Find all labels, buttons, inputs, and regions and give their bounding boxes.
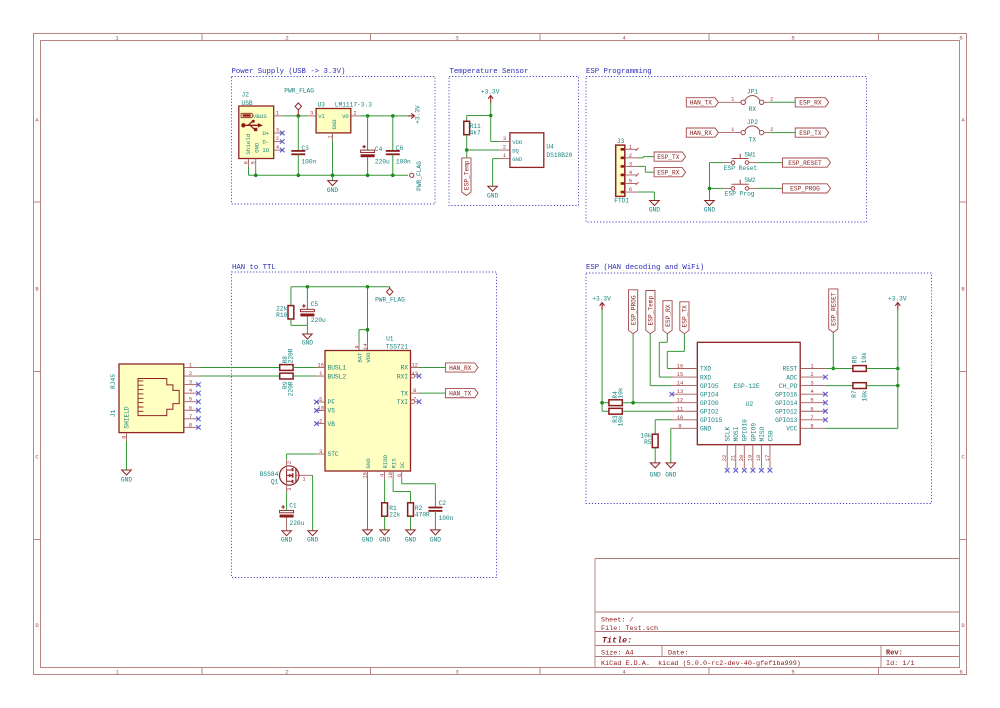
wire GPIO15 to R5 <box>655 420 672 434</box>
wire R6 to +3.3V rail <box>866 368 898 370</box>
U2 pin 13 GPIO4 <box>670 389 698 396</box>
svg-text:Temperature Sensor: Temperature Sensor <box>450 68 529 76</box>
section box HAN to TTL <box>232 264 497 578</box>
U3 pin 3 VI <box>308 110 317 116</box>
svg-text:SW1: SW1 <box>744 151 755 158</box>
svg-text:RX: RX <box>401 365 409 372</box>
svg-text:CH_PD: CH_PD <box>779 383 798 390</box>
svg-text:C: C <box>35 454 39 461</box>
J1 pin 5 <box>184 397 199 403</box>
junction SW2 ground branch <box>708 187 712 191</box>
svg-text:VO: VO <box>342 113 349 120</box>
U2 pin 22 SCLK <box>722 445 730 473</box>
svg-text:2: 2 <box>629 153 632 159</box>
svg-text:A: A <box>961 117 965 124</box>
U2 pin 11 GPIO2 <box>672 406 698 412</box>
J3 pin 5 <box>625 179 639 186</box>
U1 pin 8 TX <box>411 388 420 394</box>
svg-text:5: 5 <box>629 179 632 185</box>
frame column ticks top/bottom <box>202 34 879 675</box>
svg-text:4: 4 <box>380 474 386 477</box>
svg-text:6: 6 <box>810 406 813 412</box>
svg-text:HAN to TTL: HAN to TTL <box>232 264 276 272</box>
svg-text:4k7: 4k7 <box>470 130 481 137</box>
svg-text:J1: J1 <box>110 410 117 418</box>
svg-text:D+: D+ <box>262 130 269 137</box>
wire Q1 gate to ground <box>312 475 314 530</box>
svg-text:3: 3 <box>810 381 813 387</box>
svg-text:Sheet: /: Sheet: / <box>601 617 634 625</box>
no-connect J1 pin 4 <box>196 391 201 396</box>
transistor Q1 BSS84 <box>260 459 313 491</box>
wire ESP_TX to TXD <box>667 334 684 369</box>
U2 pin 10 GPIO15 <box>672 415 698 421</box>
svg-text:Title:: Title: <box>602 636 632 646</box>
wire ESP_RESET down to REST <box>832 332 834 368</box>
svg-text:6: 6 <box>959 668 962 675</box>
resistor R8 220R <box>280 348 295 370</box>
ground symbol (R2) <box>405 530 416 544</box>
J1 pin 2 <box>184 371 199 377</box>
svg-text:C1: C1 <box>289 502 297 509</box>
wire R10 bottom <box>291 319 308 325</box>
J1 pin 9 shield <box>121 433 127 441</box>
junction C4 top <box>366 114 370 118</box>
U1 pin 10 VS <box>314 405 325 412</box>
U1 pin 7 TXI <box>411 397 422 404</box>
junction R7/+3.3V <box>896 384 900 388</box>
frame row ticks left/right <box>34 202 967 540</box>
ground symbol (Q1 gate) <box>307 531 318 544</box>
global label ESP_TX (ftdi) <box>654 152 686 161</box>
J2 pin 1 VBUS <box>274 110 283 116</box>
svg-text:15: 15 <box>677 372 683 378</box>
wire +3.3V right rail to VCC <box>825 310 897 428</box>
svg-text:R6: R6 <box>852 356 859 364</box>
svg-text:ESP Reset: ESP Reset <box>724 165 758 172</box>
U1 pin 15 GND <box>363 471 369 480</box>
svg-text:ESP Prog: ESP Prog <box>725 191 755 198</box>
wire CH_PD to R7 <box>825 385 853 387</box>
svg-text:22k: 22k <box>389 511 400 518</box>
svg-text:A: A <box>35 117 39 124</box>
svg-text:Size: A4: Size: A4 <box>601 649 634 657</box>
wire U3 VO to +3.3V <box>359 115 408 117</box>
svg-text:MOSI: MOSI <box>733 426 740 441</box>
svg-text:18: 18 <box>756 455 762 461</box>
svg-text:RXI: RXI <box>397 373 408 380</box>
junction VBUS/C3/PWR_FLAG <box>297 114 301 118</box>
junction R11 top <box>489 114 493 118</box>
wire R9 to BUSL2 <box>293 375 316 377</box>
svg-text:PWR_FLAG: PWR_FLAG <box>416 161 423 191</box>
ground symbol (switches) <box>704 201 715 214</box>
junction ground rail J2 pin5 <box>254 174 258 178</box>
svg-text:DS18B20: DS18B20 <box>546 152 572 159</box>
svg-text:VBUS: VBUS <box>253 113 267 120</box>
svg-text:ESP Programming: ESP Programming <box>586 68 652 76</box>
section box ESP Programming <box>586 68 867 222</box>
top power rail (HAN) <box>291 286 390 288</box>
frame row labels A-D <box>35 117 965 630</box>
U1 pin 4 RIDD <box>380 471 386 480</box>
svg-text:1: 1 <box>302 476 305 482</box>
svg-text:ESP_TX: ESP_TX <box>682 305 689 328</box>
svg-text:GPIO10: GPIO10 <box>742 419 749 442</box>
U2 pin 18 MISO <box>756 445 764 473</box>
svg-text:ESP_RESET: ESP_RESET <box>788 160 822 167</box>
global label HAN_TX (prog) <box>686 98 718 107</box>
U2 pin 17 CS0 <box>765 445 773 473</box>
svg-text:VB: VB <box>328 421 336 428</box>
resistor R7 10k <box>851 383 869 402</box>
svg-text:4: 4 <box>629 170 632 176</box>
svg-text:TXD: TXD <box>700 366 711 373</box>
svg-text:VDD: VDD <box>365 352 372 363</box>
svg-text:TSS721: TSS721 <box>386 344 409 351</box>
U2 pin 20 GPIO10 <box>739 445 747 473</box>
svg-text:VS: VS <box>328 408 336 415</box>
svg-text:7: 7 <box>413 397 416 403</box>
svg-text:Id: 1/1: Id: 1/1 <box>886 660 915 668</box>
regulator U3 LM1117-3.3 <box>316 102 372 133</box>
svg-text:GND: GND <box>121 477 132 484</box>
capacitor C1 220u <box>280 502 305 530</box>
svg-text:220u: 220u <box>375 158 390 165</box>
ground symbol (R5) <box>650 463 661 479</box>
wire R4 to GPIO0 <box>622 402 672 404</box>
wire JP2 to ESP_TX <box>769 132 795 134</box>
svg-text:2: 2 <box>287 461 293 464</box>
svg-text:5: 5 <box>791 35 794 42</box>
svg-text:1: 1 <box>503 153 506 159</box>
wire rail to U1 BAT/VDD <box>359 287 368 343</box>
svg-text:R5: R5 <box>644 439 652 446</box>
wire R8 to BUSL1 <box>293 367 316 369</box>
svg-text:J2: J2 <box>242 91 250 98</box>
U2 pin 1 REST <box>800 364 825 370</box>
frame column labels 1-6 <box>115 35 962 676</box>
svg-text:16: 16 <box>677 364 683 370</box>
svg-text:ESP_Temp: ESP_Temp <box>648 295 655 325</box>
wire U1 GND to ground <box>367 480 369 530</box>
no-connect J1 pin 5 <box>196 399 201 404</box>
global label ESP_PROG (prog) <box>783 184 831 193</box>
svg-text:D: D <box>961 622 965 629</box>
svg-text:3: 3 <box>629 161 632 167</box>
svg-text:GPIO0: GPIO0 <box>700 400 719 407</box>
svg-text:PWR_FLAG: PWR_FLAG <box>284 87 314 94</box>
junction VDD rail <box>366 285 370 289</box>
svg-text:TX: TX <box>749 137 757 144</box>
global label ESP_RX (ftdi) <box>654 168 686 177</box>
svg-text:GND: GND <box>379 537 390 544</box>
svg-text:20: 20 <box>739 455 745 461</box>
resistor R9 220R <box>280 373 295 396</box>
svg-text:DQ: DQ <box>512 148 519 155</box>
power +3.3V (temp sensor) <box>481 89 500 104</box>
capacitor C2 100n <box>428 500 453 530</box>
U2 pin 14 GPIO5 <box>672 381 698 387</box>
global label ESP_RX (esp) <box>663 301 672 334</box>
svg-text:5: 5 <box>810 398 813 404</box>
U1 pin 1 BUSL2 <box>317 371 326 377</box>
title block size/date/rev <box>601 649 903 657</box>
wire R4 left <box>602 402 609 404</box>
global label HAN_TX <box>445 389 478 398</box>
svg-text:MISO: MISO <box>759 426 766 441</box>
svg-text:GPIO16: GPIO16 <box>775 391 798 398</box>
J3 pin 4 <box>625 170 639 177</box>
svg-text:3: 3 <box>455 668 458 675</box>
svg-text:GND: GND <box>365 458 372 469</box>
svg-text:GND: GND <box>307 537 318 544</box>
U2 pin 9 GND <box>672 423 698 429</box>
power +3.3V (ESP right) <box>888 296 907 311</box>
svg-text:GPIO13: GPIO13 <box>775 417 798 424</box>
svg-text:RJ45: RJ45 <box>110 374 117 389</box>
svg-text:4: 4 <box>810 389 813 395</box>
svg-text:3: 3 <box>319 449 322 455</box>
J2 pin 6 shield <box>243 159 249 168</box>
svg-text:ESP_Temp: ESP_Temp <box>464 160 471 190</box>
switch SW1 ESP Reset <box>723 151 757 172</box>
svg-text:U3: U3 <box>318 102 326 109</box>
svg-text:1: 1 <box>731 127 734 133</box>
svg-text:6: 6 <box>629 187 632 193</box>
svg-text:LM1117-3.3: LM1117-3.3 <box>335 102 372 109</box>
svg-text:RXD: RXD <box>700 374 711 381</box>
resistor R3 10k <box>609 408 625 426</box>
wire SW2 to ESP_PROG <box>757 187 782 189</box>
svg-text:14: 14 <box>363 344 369 350</box>
global label HAN_RX (prog) <box>686 128 718 137</box>
svg-text:3: 3 <box>310 110 313 116</box>
title block Title <box>602 636 632 646</box>
svg-text:B: B <box>35 286 39 293</box>
wire to R11 <box>467 116 491 122</box>
global label ESP_RESET (esp) <box>829 289 838 333</box>
svg-text:21: 21 <box>731 455 737 461</box>
wire RIS to R2 <box>393 480 410 503</box>
global label ESP_RX (prog) <box>795 98 829 107</box>
svg-text:10k: 10k <box>862 390 869 401</box>
svg-text:SHIELD: SHIELD <box>124 406 131 429</box>
jumper JP1 RX <box>731 89 773 114</box>
svg-text:22: 22 <box>722 455 728 461</box>
svg-text:GND: GND <box>487 193 498 200</box>
wire R11 to DQ <box>467 135 500 150</box>
wire TX to HAN_TX <box>419 392 445 394</box>
svg-text:4: 4 <box>276 145 279 151</box>
wire J2 VBUS to U3 VI <box>282 115 307 117</box>
U1 pin 14 VDD <box>363 343 369 350</box>
svg-text:GPIO9: GPIO9 <box>750 423 757 442</box>
J3 pin 1 <box>625 144 639 151</box>
resistor R11 4k7 <box>464 121 481 136</box>
svg-text:File: Test.sch: File: Test.sch <box>601 625 658 633</box>
svg-text:5: 5 <box>189 397 192 403</box>
wire R3 to GPIO2 <box>622 410 672 412</box>
svg-text:GND: GND <box>331 119 338 130</box>
junction ground rail C4 <box>366 174 370 178</box>
wire U3 GND down <box>332 141 334 176</box>
resistor R6 10k <box>852 352 869 372</box>
svg-text:USB: USB <box>242 100 253 107</box>
svg-text:B: B <box>961 286 965 293</box>
svg-text:J3: J3 <box>617 138 625 145</box>
wire ESP_PROG down <box>632 334 634 403</box>
title block sheet text <box>601 617 658 633</box>
U4 pin 1 GND <box>499 153 510 159</box>
svg-text:TX: TX <box>401 390 409 397</box>
svg-text:GND: GND <box>700 426 711 433</box>
U2 pin 8 VCC <box>800 423 825 429</box>
U1 pin 5 PF <box>314 397 325 404</box>
no-connect D- <box>280 139 285 144</box>
U4 pin 3 VDD <box>499 136 510 142</box>
svg-text:GPIO2: GPIO2 <box>700 408 719 415</box>
svg-text:1: 1 <box>629 144 632 150</box>
svg-text:1: 1 <box>327 135 333 138</box>
svg-text:C6: C6 <box>396 145 404 152</box>
junction ground rail C3 <box>297 174 301 178</box>
power flag PWR_FLAG (HAN rail) <box>375 287 405 304</box>
U2 pin 16 TXD <box>672 364 698 370</box>
svg-text:100n: 100n <box>396 158 411 165</box>
svg-text:3: 3 <box>503 136 506 142</box>
ground symbol (U1 GND) <box>362 530 373 544</box>
junction REST <box>832 367 836 371</box>
junction ground rail U3 <box>331 174 335 178</box>
svg-text:VI: VI <box>318 113 325 120</box>
resistor R5 10k <box>640 432 658 447</box>
svg-text:U4: U4 <box>546 144 554 151</box>
svg-text:HAN_TX: HAN_TX <box>449 390 472 397</box>
svg-text:6: 6 <box>959 35 962 42</box>
U2 pin 19 GPIO9 <box>748 445 756 473</box>
U1 pin 13 RXI <box>411 371 422 378</box>
no-connect J1 pin 8 <box>196 425 201 430</box>
U2 pin 12 GPIO0 <box>672 398 698 404</box>
svg-text:ESP_PROG: ESP_PROG <box>790 186 820 193</box>
U2 pin 7 GPIO13 <box>800 415 828 422</box>
svg-text:220u: 220u <box>290 520 305 527</box>
svg-text:13: 13 <box>677 389 683 395</box>
svg-text:GND: GND <box>327 187 338 194</box>
title block frame <box>595 559 960 668</box>
svg-text:C4: C4 <box>375 146 383 153</box>
U4 pin 2 DQ <box>499 145 510 151</box>
sensor U4 DS18B20 <box>510 133 573 168</box>
title block kicad version / id <box>601 660 915 668</box>
svg-text:2: 2 <box>353 110 356 116</box>
resistor R2 470R <box>408 503 430 519</box>
capacitor C4 220u <box>361 116 390 175</box>
J2 pin 5 GND <box>251 159 257 168</box>
connector J1 RJ45 <box>110 364 184 433</box>
global label ESP_TX (esp) <box>680 302 689 334</box>
connector J2 USB <box>239 91 274 158</box>
J2 pin 4 ID <box>274 145 283 151</box>
junction BAT branch <box>366 328 370 332</box>
U1 pin 3 STC <box>317 449 326 455</box>
svg-text:3: 3 <box>455 35 458 42</box>
svg-text:CS0: CS0 <box>767 430 774 441</box>
svg-text:PWR_FLAG: PWR_FLAG <box>375 297 405 304</box>
svg-text:ESP_RX: ESP_RX <box>799 100 822 107</box>
ground symbol (power supply) <box>327 175 338 194</box>
svg-text:Shield: Shield <box>245 134 252 155</box>
svg-text:10: 10 <box>388 472 394 478</box>
svg-text:ESP-12E: ESP-12E <box>734 383 760 390</box>
wire J1 pin1 to R8 <box>198 367 279 369</box>
jumper JP2 TX <box>731 119 773 144</box>
wire ESP_Temp to GPIO5 <box>650 334 672 386</box>
svg-text:100n: 100n <box>301 158 316 165</box>
svg-text:+3.3V: +3.3V <box>481 89 500 96</box>
U1 pin 6 SC <box>397 471 403 480</box>
wire J3 pin3 to ESP_RX <box>637 166 654 172</box>
U2 pin 4 GPIO16 <box>800 389 828 396</box>
svg-text:2: 2 <box>503 145 506 151</box>
svg-text:12: 12 <box>411 362 417 368</box>
wire +3.3V left rail down <box>602 310 609 411</box>
svg-text:R7: R7 <box>851 390 858 398</box>
junction ground rail C6 <box>391 174 395 178</box>
junction C6 top <box>391 114 395 118</box>
svg-text:8: 8 <box>413 388 416 394</box>
J1 pin 3 <box>184 380 199 386</box>
svg-text:GND: GND <box>254 142 261 153</box>
wire JP1 to ESP_RX <box>769 101 795 103</box>
U1 pin 16 BUSL1 <box>317 362 326 368</box>
svg-text:U2: U2 <box>746 401 754 408</box>
ground symbol (C1) <box>281 531 292 544</box>
svg-text:+3.3V: +3.3V <box>888 296 907 303</box>
ground rail wire (power supply) <box>249 167 409 175</box>
svg-text:D-: D- <box>262 139 269 146</box>
resistor R10 22k <box>276 306 294 319</box>
svg-text:TXI: TXI <box>397 399 408 406</box>
svg-text:KiCad E.D.A. kicad (5.0.0-rc2: KiCad E.D.A. kicad (5.0.0-rc2-dev-40-gfe… <box>601 660 801 668</box>
svg-text:Q1: Q1 <box>271 479 279 486</box>
J1 pin 1 <box>184 363 199 369</box>
wire shield to ground <box>126 441 128 470</box>
svg-text:Date:: Date: <box>668 649 688 657</box>
U1 pin 2 VB <box>314 419 325 426</box>
module U2 ESP-12E <box>697 342 800 444</box>
svg-text:9: 9 <box>354 345 360 348</box>
ground symbol (U2 GND) <box>665 463 676 479</box>
wire REST to R6 <box>825 368 853 370</box>
no-connect J1 pin 6 <box>196 408 201 413</box>
wire HAN_TX to JP1 <box>718 101 741 103</box>
svg-text:RX: RX <box>749 106 757 113</box>
U1 pin 9 BAT <box>354 343 360 350</box>
svg-text:+3.3V: +3.3V <box>414 105 421 124</box>
svg-text:6: 6 <box>397 474 403 477</box>
svg-text:C3: C3 <box>301 145 309 152</box>
svg-text:R10: R10 <box>276 312 287 319</box>
svg-text:BUSL2: BUSL2 <box>328 373 347 380</box>
global label ESP_Temp (esp) <box>646 291 655 334</box>
svg-text:C2: C2 <box>439 500 447 507</box>
ground symbol (C5/R10) <box>302 325 313 346</box>
svg-text:GND: GND <box>405 537 416 544</box>
svg-text:GPIO5: GPIO5 <box>700 383 719 390</box>
svg-text:1: 1 <box>276 110 279 116</box>
